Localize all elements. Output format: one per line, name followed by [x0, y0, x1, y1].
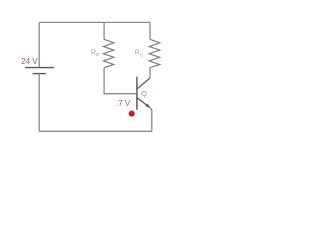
wire left side upper (battery top lead): [38, 22, 40, 67]
wire top rail: [39, 21, 150, 23]
wire RC bottom lead (collector drop): [149, 68, 151, 78]
wire emitter to bottom rail: [150, 107, 152, 131]
transistor Q collector diagonal: [137, 78, 150, 89]
resistor RB: [103, 39, 114, 67]
transistor Q base bar: [136, 77, 138, 110]
node probe dot (red): [129, 111, 135, 117]
wire RB top lead: [103, 22, 105, 39]
wire left side lower (battery bottom lead): [38, 74, 40, 132]
wire RC top lead: [149, 22, 151, 39]
svg-text:RC: RC: [135, 50, 144, 59]
battery V1 24V short plate: [33, 73, 46, 75]
svg-text:.7 V: .7 V: [116, 99, 131, 108]
svg-text:RB: RB: [91, 49, 99, 58]
transistor Q emitter arrowhead: [145, 104, 150, 108]
battery V1 24V long plate: [25, 67, 54, 69]
svg-text:Q: Q: [141, 89, 147, 98]
transistor Q emitter diagonal: [137, 98, 150, 108]
svg-text:24 V: 24 V: [21, 57, 38, 66]
wire RB bottom lead: [104, 68, 137, 94]
wire bottom rail: [39, 130, 152, 132]
resistor RC: [149, 39, 160, 67]
